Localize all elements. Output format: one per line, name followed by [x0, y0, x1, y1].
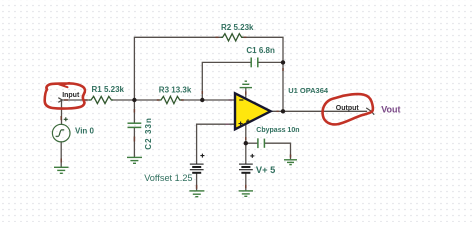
svg-text:V+ 5: V+ 5	[256, 165, 275, 175]
svg-text:R2 5.23k: R2 5.23k	[221, 23, 254, 32]
svg-text:U1 OPA364: U1 OPA364	[288, 86, 329, 95]
svg-text:Vout: Vout	[381, 105, 400, 115]
svg-text:Voffset 1.25: Voffset 1.25	[144, 173, 192, 183]
svg-text:Output: Output	[336, 105, 360, 112]
svg-text:C1 6.8n: C1 6.8n	[246, 46, 275, 55]
svg-text:Input: Input	[62, 92, 80, 99]
svg-text:C2 33n: C2 33n	[144, 117, 153, 150]
svg-text:Cbypass 10n: Cbypass 10n	[256, 127, 299, 134]
svg-text:R3 13.3k: R3 13.3k	[159, 86, 192, 95]
svg-text:R1 5.23k: R1 5.23k	[92, 85, 125, 94]
svg-text:Vin 0: Vin 0	[75, 126, 95, 135]
